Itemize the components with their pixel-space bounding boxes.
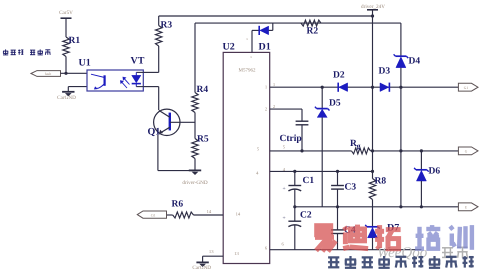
svg-text:VT: VT [131, 56, 145, 67]
svg-text:CarGND: CarGND [192, 265, 211, 271]
svg-text:driver-GND: driver-GND [182, 180, 208, 186]
svg-text:13: 13 [209, 249, 214, 254]
svg-text:G: G [465, 150, 468, 154]
svg-text:D2: D2 [333, 71, 345, 81]
svg-text:D5: D5 [329, 99, 341, 109]
svg-text:CarGND: CarGND [57, 95, 76, 101]
svg-text:R2: R2 [307, 27, 319, 37]
svg-text:C1: C1 [303, 176, 315, 186]
svg-text:g: g [357, 142, 361, 151]
svg-text:R1: R1 [69, 36, 81, 46]
svg-text:C2: C2 [300, 211, 312, 221]
svg-text:R6: R6 [172, 200, 184, 210]
svg-text:13: 13 [234, 251, 239, 256]
svg-text:D6: D6 [429, 167, 441, 177]
svg-text:U1: U1 [79, 58, 91, 69]
svg-text:+: + [282, 186, 285, 192]
svg-text:D1: D1 [259, 41, 271, 52]
svg-text:Ctrip: Ctrip [280, 134, 302, 144]
svg-text:Car5V: Car5V [59, 10, 73, 16]
svg-text:14: 14 [236, 212, 241, 217]
svg-text:14: 14 [207, 209, 212, 214]
svg-text:C3: C3 [345, 183, 357, 193]
svg-text:D4: D4 [409, 57, 421, 67]
svg-text:R4: R4 [197, 85, 209, 95]
svg-text:D3: D3 [379, 67, 391, 77]
svg-text:R5: R5 [197, 135, 209, 145]
svg-text:R3: R3 [161, 21, 173, 31]
svg-text:M57962: M57962 [239, 68, 256, 74]
svg-text:Ctl: Ctl [151, 214, 155, 218]
svg-text:+: + [282, 216, 285, 222]
svg-text:U2: U2 [223, 42, 235, 53]
svg-text:R8: R8 [375, 177, 387, 187]
svg-text:fault: fault [45, 72, 52, 76]
svg-text:G1: G1 [464, 86, 469, 90]
